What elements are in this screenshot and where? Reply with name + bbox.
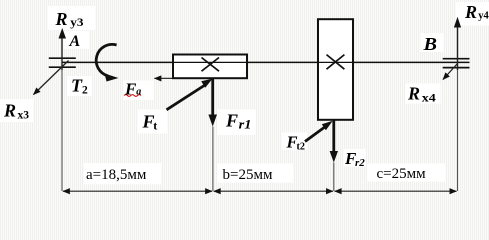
svg-text:r1: r1 (239, 116, 252, 131)
svg-text:r2: r2 (355, 157, 365, 169)
svg-text:F: F (124, 79, 137, 98)
svg-text:A: A (69, 33, 81, 50)
svg-text:y4: y4 (478, 10, 489, 21)
svg-text:R: R (407, 84, 420, 104)
svg-text:y3: y3 (70, 15, 83, 29)
svg-text:t2: t2 (297, 141, 306, 152)
svg-text:x4: x4 (422, 92, 436, 104)
svg-text:F: F (225, 110, 238, 130)
svg-text:R: R (3, 100, 16, 120)
svg-text:B: B (422, 34, 437, 54)
svg-text:c=25мм: c=25мм (377, 166, 427, 182)
svg-text:t: t (153, 118, 157, 132)
svg-text:x3: x3 (18, 109, 30, 121)
svg-text:R: R (55, 9, 68, 29)
svg-text:a=18,5мм: a=18,5мм (86, 167, 147, 183)
svg-text:a: a (136, 87, 141, 98)
svg-text:2: 2 (82, 84, 88, 96)
svg-text:R: R (464, 2, 477, 22)
svg-text:b=25мм: b=25мм (223, 167, 273, 183)
